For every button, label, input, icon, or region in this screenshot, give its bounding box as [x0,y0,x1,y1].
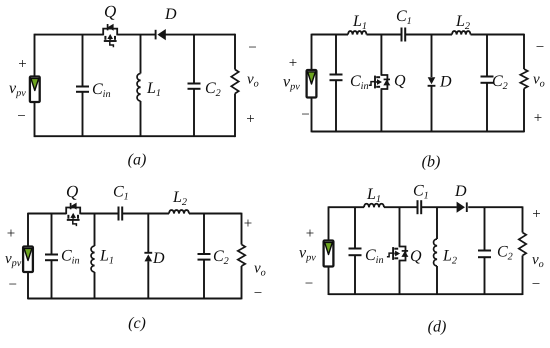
inductor L2 (c) [169,210,189,213]
wire a C2 top [193,35,195,84]
wire top rail d: C1 to D [421,206,457,208]
capacitor C2 (a) [188,84,201,89]
wire c right top [241,213,243,245]
capacitor C1 (d) [418,200,422,214]
wire top rail b: L2 to output [471,34,525,36]
wire bottom rail b [312,131,525,133]
inductor L2 (b) [452,31,471,34]
wire top rail c: input to Q [28,213,66,215]
wire c D top [147,214,149,253]
svg-text:Q: Q [104,2,116,21]
wire a L1 bottom [140,101,142,136]
svg-text:−: − [254,286,262,302]
svg-text:+: + [306,226,314,242]
svg-text:−: − [536,40,544,56]
wire bottom rail c [28,298,242,300]
wire b Q bottom [380,89,382,132]
svg-text:−: − [17,109,25,125]
resistor load v_o (c) [238,245,245,267]
PV source v_pv (b) [307,70,317,98]
capacitor C2 (b) [481,77,494,83]
wire b C2 bottom [486,83,488,132]
svg-text:Q: Q [394,73,406,90]
wire b Cin bottom [335,80,337,131]
capacitor C2 (d) [478,251,491,258]
wire d right top [522,206,524,232]
resistor load v_o (b) [520,69,527,89]
diode D (b) [428,77,436,86]
wire bottom rail d [329,293,523,295]
wire d right bottom [522,256,524,296]
circuit (c) Zeta converter [5,182,266,332]
inductor L1 (a) [137,74,140,102]
wire d C2 top [484,207,486,250]
wire top rail c: Q to C1 [80,213,118,215]
wire c left top [27,213,29,247]
svg-text:−: − [301,107,309,123]
svg-text:+: + [7,226,15,242]
wire b D top [431,35,433,78]
svg-text:D: D [164,6,177,23]
wire d L2 top [436,207,438,239]
wire c L1 top [94,214,96,247]
wire top rail d: input to L1 [329,206,365,208]
svg-text:(c): (c) [128,315,146,332]
circuit (b) Cuk converter [283,8,545,171]
wire c left bottom [27,272,29,299]
wire c Cin top [51,214,53,255]
wire top rail c: C1 to L2 [122,213,169,215]
diode D (a) [156,29,166,40]
wire b right bottom [523,89,525,133]
wire c C2 bottom [203,260,205,299]
PV source v_pv (c) [23,247,33,273]
wire d left bottom [328,267,330,296]
wire d left top [328,206,330,240]
svg-text:+: + [289,56,297,72]
svg-text:D: D [439,74,452,91]
capacitor C_in (c) [45,255,58,261]
capacitor C_in (a) [76,87,89,92]
wire b C2 top [486,35,488,77]
wire b D bottom [431,86,433,132]
wire a right bottom [234,94,236,138]
wire d Q top [399,207,401,246]
transistor Q (d) (MOSFET) [387,247,409,261]
PV source v_pv (d) [324,241,334,267]
svg-text:Q: Q [66,182,78,201]
svg-text:(a): (a) [128,152,147,169]
svg-text:+: + [534,111,542,127]
svg-text:Q: Q [410,248,422,265]
wire d Cin bottom [354,255,356,294]
svg-text:−: − [532,277,540,293]
svg-text:+: + [532,207,540,223]
capacitor C_in (b) [330,75,343,81]
svg-text:(b): (b) [422,154,441,171]
wire b right top [523,34,525,69]
wire c D bottom [147,261,149,298]
svg-text:+: + [246,112,254,128]
wire top rail a: input to Q [35,34,104,36]
wire top rail b: L1 to C1 [367,34,402,36]
svg-text:+: + [244,216,252,232]
wire top rail a: D to output [164,34,235,36]
wire c Cin bottom [51,260,53,298]
svg-text:−: − [248,40,256,56]
wire a right top [234,34,236,70]
wire top rail b: C1 to L2 [405,34,452,36]
wire a left bottom [34,102,36,137]
wire a Cin top [82,35,84,87]
resistor load v_o (d) [519,233,526,256]
wire top rail d: L1 to C1 [384,206,418,208]
inductor L2 (d) [434,239,437,266]
svg-text:−: − [8,277,16,293]
wire b Cin top [335,35,337,75]
capacitor C1 (b) [402,28,406,42]
transistor Q (b) (MOSFET) [369,75,391,89]
diode D (c) [144,253,152,262]
svg-text:D: D [454,183,467,200]
wire a Cin bottom [82,92,84,136]
circuit (a) buck-boost converter [9,2,259,169]
wire d L2 bottom [436,266,438,294]
svg-text:(d): (d) [428,319,447,336]
wire top rail c: L2 to output [189,213,242,215]
wire a L1 top [140,35,142,74]
wire d C2 bottom [484,257,486,294]
wire c C2 top [203,214,205,255]
capacitor C2 (c) [198,254,211,260]
inductor L1 (c) [91,246,94,272]
diode D (d) [457,202,467,213]
wire top rail b: input to L1 [312,34,349,36]
wire b left bottom [311,98,313,133]
capacitor C1 (c) [119,207,123,221]
capacitor C_in (d) [349,249,362,256]
wire d Cin top [354,207,356,248]
svg-text:−: − [305,276,313,292]
inductor L1 (d) [364,204,384,207]
wire a left top [34,34,36,77]
transistor Q (a) (MOSFET) [103,24,117,48]
svg-text:D: D [152,250,165,267]
wire b left top [311,34,313,70]
svg-text:+: + [18,57,26,73]
wire b Q top [380,35,382,76]
wire c L1 bottom [94,272,96,299]
transistor Q (c) (MOSFET) [66,203,80,227]
wire d Q bottom [399,261,401,295]
wire top rail a: Q to D [117,34,155,36]
PV source v_pv (a) [30,77,40,103]
wire a C2 bottom [193,89,195,136]
wire c right bottom [241,266,243,299]
inductor L1 (b) [348,31,367,34]
circuit (d) SEPIC converter [299,183,544,336]
resistor load v_o (a) [231,70,238,94]
wire bottom rail a [35,135,236,137]
wire top rail d: D to output [468,206,522,208]
